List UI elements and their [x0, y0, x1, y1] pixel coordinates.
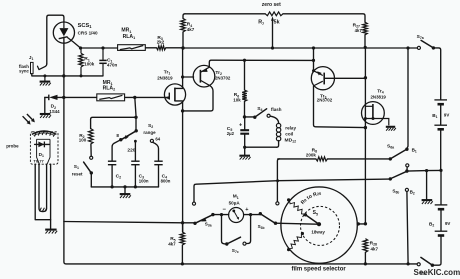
label SCS1: [78, 23, 93, 29]
label 4k7 R5: [168, 242, 176, 247]
label S3b: [258, 224, 265, 230]
label S6b: [392, 189, 399, 195]
capacitor C2: [108, 161, 116, 187]
ground below J1 rail: [40, 76, 51, 86]
label S2: [148, 123, 153, 129]
label C4: [162, 173, 168, 179]
svg-text:SeeKIC.com: SeeKIC.com: [414, 268, 460, 277]
svg-text:zero set: zero set: [262, 2, 281, 8]
junction dot D2 node: [62, 96, 65, 99]
switch S1 reset: [84, 156, 93, 187]
svg-text:50µA: 50µA: [229, 201, 241, 206]
wire wiper feed: [276, 223, 318, 224]
ground cap rail: [120, 187, 131, 198]
label 2k2: [157, 40, 165, 45]
svg-text:100k: 100k: [84, 62, 94, 67]
terminal circle B2: [405, 188, 408, 191]
potentiometer R7: [265, 12, 283, 48]
capacitor C5: [240, 117, 249, 147]
relay contact MR1 RLA1: [118, 45, 146, 51]
label MD12: [285, 138, 297, 144]
wire top rail: [185, 14, 365, 22]
label 100: [79, 138, 87, 143]
transistor Tr4 2N3819: [362, 102, 389, 126]
switch S3b: [259, 212, 278, 225]
label R7: [258, 20, 264, 26]
svg-text:1S44: 1S44: [49, 109, 60, 114]
label C1: [107, 58, 113, 64]
resistor R28: [363, 239, 368, 264]
label S3a: [205, 222, 212, 228]
svg-text:100n: 100n: [139, 178, 149, 183]
wire battery mid rail: [407, 169, 441, 172]
wire selector to R28: [357, 222, 368, 225]
junction dot Tr4 gate: [364, 126, 367, 129]
label 200k: [306, 153, 316, 158]
transistor Tr2 2N3702: [193, 65, 215, 87]
capacitor C1: [99, 48, 106, 76]
label S6a: [387, 144, 394, 150]
label minus: [223, 207, 227, 213]
label reset: [72, 171, 83, 176]
junction dot C5 bottom: [243, 146, 246, 149]
svg-text:2N3819: 2N3819: [371, 94, 387, 99]
label film speed selector: [292, 267, 347, 273]
svg-text:−: −: [223, 207, 227, 213]
label 10k: [233, 97, 241, 102]
label 100k: [84, 62, 94, 67]
label R3: [157, 35, 162, 41]
label 4k7 R28: [371, 247, 379, 252]
switch S4: [245, 109, 271, 119]
label 18way: [311, 229, 325, 234]
ground below D2: [40, 97, 51, 118]
diode D2: [45, 95, 97, 101]
label C2: [116, 173, 122, 179]
svg-text:4k7: 4k7: [187, 27, 195, 32]
label D1: [39, 152, 44, 158]
watermark: [414, 268, 460, 277]
svg-text:4k7: 4k7: [371, 247, 379, 252]
svg-text:4k7: 4k7: [355, 28, 363, 33]
label plus M1: [245, 207, 249, 213]
label J1: [29, 55, 34, 61]
switch S7b: [417, 257, 434, 267]
svg-text:200k: 200k: [306, 153, 316, 158]
label coil: [285, 132, 293, 137]
label MR1: [121, 28, 131, 34]
svg-text:CRS 1/40: CRS 1/40: [78, 30, 98, 35]
svg-text:2µ2: 2µ2: [227, 131, 235, 136]
wire R2 top link: [91, 117, 136, 128]
battery B1: [434, 100, 447, 170]
light arrows: [23, 114, 35, 125]
svg-text:9V: 9V: [445, 221, 450, 226]
label B1 at S6a: [412, 148, 417, 154]
wire C5 bottom node: [245, 146, 277, 148]
label B2 9V: [429, 221, 450, 228]
label 2N3819 Tr4: [371, 94, 387, 99]
resistor R27: [363, 22, 368, 47]
label S7c: [232, 248, 239, 254]
junction dots emitter rail: [181, 46, 409, 50]
svg-text:10k: 10k: [233, 97, 241, 102]
label Tr3: [320, 93, 327, 99]
meter M1: [229, 208, 244, 223]
capacitor C4: [154, 161, 162, 187]
resistor R1: [79, 48, 83, 76]
label TIL77: [33, 158, 44, 163]
label B1 9V: [432, 112, 449, 119]
label S7b: [420, 270, 427, 276]
ground battery mid: [422, 171, 433, 204]
label 1S44: [49, 109, 60, 114]
junction dots node y48: [79, 46, 105, 49]
svg-text:SCS1: SCS1: [78, 23, 93, 29]
relay contact MR1 RLA2: [97, 94, 125, 101]
junction dots mid rail: [425, 169, 443, 172]
photodiode D1: [35, 139, 50, 164]
resistor R26: [287, 232, 304, 251]
label 64: [155, 136, 160, 141]
svg-text:4k7: 4k7: [168, 242, 176, 247]
svg-text:9V: 9V: [444, 112, 449, 117]
wire S7a to B1: [433, 48, 440, 100]
contact S2 64: [150, 139, 158, 160]
label 4k7 R27: [355, 28, 363, 33]
svg-text:100: 100: [79, 138, 87, 143]
selector outer circle S5: [281, 187, 357, 263]
label 4k7 R4: [187, 27, 195, 32]
svg-text:18way: 18way: [311, 229, 325, 234]
switch S2 range: [119, 117, 138, 141]
label RLA1: [123, 34, 136, 40]
label flash S4: [271, 107, 282, 112]
switch S7c bypass: [222, 215, 251, 246]
wire S3a upper to S6b: [194, 179, 389, 202]
capacitor C3: [131, 161, 139, 187]
junction dot emitter wire join: [312, 59, 315, 62]
junction dots on J1 rail: [43, 74, 82, 77]
label R6: [234, 92, 239, 98]
wire emitter rail y48: [183, 47, 417, 49]
junction dots S7c taps: [220, 213, 252, 216]
label R1: [84, 56, 90, 62]
svg-text:flash: flash: [271, 107, 282, 112]
wire J1 to SCS1 anode: [47, 15, 64, 64]
svg-text:TIL77: TIL77: [33, 158, 44, 163]
label C5: [227, 126, 233, 132]
label 100n: [139, 178, 149, 183]
junction dot Tr2 base: [181, 75, 184, 78]
wire S7a to B1 contact: [407, 48, 408, 148]
svg-text:range: range: [143, 130, 156, 135]
resistor R2: [89, 129, 94, 157]
label 2N3819 Tr1: [157, 75, 173, 80]
label zero set: [262, 2, 281, 8]
selector inner dashed circle: [301, 206, 340, 245]
svg-text:470n: 470n: [107, 63, 117, 68]
wire Tr2 emitter to rail y60: [209, 60, 313, 67]
junction dot S3a column: [181, 221, 184, 224]
junction dot RLA2 right: [133, 96, 136, 99]
label 2N3702 Tr2: [215, 76, 231, 81]
label 220: [127, 148, 135, 154]
resistor R6: [242, 60, 247, 117]
resistor R5: [180, 223, 185, 264]
label probe: [6, 144, 19, 149]
junction dot S4 node: [243, 115, 246, 118]
wire meter row: [213, 214, 259, 216]
label 800n: [161, 178, 171, 183]
junction dot Tr1 source node: [181, 109, 184, 112]
svg-text:2N3702: 2N3702: [317, 98, 333, 103]
probe housing: [30, 131, 58, 164]
wire Tr3 emitter column: [312, 48, 315, 72]
ground below C5: [239, 147, 250, 159]
svg-text:8: 8: [116, 133, 119, 138]
label Tr1: [164, 70, 171, 76]
label R8: [312, 148, 317, 154]
wire capacitor ground rail: [91, 186, 158, 188]
wire probe to S3a: [64, 222, 183, 223]
junction dot R2 link: [134, 116, 137, 119]
wire Tr1 source down long column: [175, 101, 183, 232]
transistor Tr1 2N3819: [164, 84, 185, 105]
switch S3a: [183, 213, 215, 225]
svg-text:5k: 5k: [274, 20, 280, 26]
terminal circle S6a lower: [406, 164, 409, 170]
svg-text:2N3819: 2N3819: [157, 75, 173, 80]
relay coil MD12: [270, 116, 281, 147]
svg-text:2N3702: 2N3702: [215, 76, 231, 81]
transistor Tr3 2N3702: [311, 67, 334, 90]
switch S6b: [389, 169, 409, 180]
svg-text:sync: sync: [19, 69, 29, 74]
wire RLA2 node down: [135, 97, 136, 115]
label S5: [313, 210, 318, 216]
ground probe: [45, 230, 57, 234]
label R5: [170, 236, 175, 242]
label 2N3702 Tr3: [317, 98, 333, 103]
label MR1 RLA2: [103, 80, 116, 92]
label plus C5: [239, 122, 243, 128]
label R4: [187, 22, 192, 28]
wire Tr3 base to R27 column: [324, 77, 365, 79]
label relay: [285, 126, 296, 131]
battery B2: [434, 170, 447, 265]
junction dot Tr3 base node: [364, 76, 367, 79]
label R27: [353, 23, 360, 29]
resistor R8: [278, 157, 389, 161]
label flash sync: [19, 64, 30, 74]
terminal circle above S3b: [276, 202, 279, 205]
resistor R4: [181, 14, 186, 48]
label 470n: [107, 63, 117, 68]
label R28: [370, 241, 377, 247]
label range: [143, 130, 156, 135]
junction dots cap rail: [111, 185, 137, 188]
label Tr2: [215, 70, 222, 76]
wire main node y48: [81, 47, 184, 49]
label S4: [257, 106, 262, 112]
switch S6a: [389, 148, 409, 161]
svg-text:220: 220: [127, 148, 135, 154]
contact S2 mid: [134, 140, 137, 161]
label M1: [233, 194, 239, 200]
SCS U1 SCS1: [53, 22, 80, 48]
label 50uA: [229, 201, 241, 206]
resistor R3: [157, 46, 166, 50]
junction dot R6 top: [243, 59, 246, 62]
wire Tr1 gate: [125, 96, 170, 98]
label R2: [79, 133, 84, 139]
label C3: [139, 173, 145, 179]
svg-text:relay: relay: [285, 126, 296, 131]
wire Tr2 base: [183, 76, 194, 78]
wire R4 node down / Tr1 drain column: [175, 48, 183, 88]
svg-text:coil: coil: [285, 132, 293, 137]
label S7a: [417, 34, 424, 40]
svg-text:film speed selector: film speed selector: [292, 267, 347, 273]
junction dot x278 cross: [276, 179, 279, 182]
wire R27 column down: [364, 47, 366, 224]
label 2u2: [227, 131, 235, 136]
jack J1: [31, 62, 47, 73]
label CRS 1/40: [78, 30, 98, 35]
label 8: [116, 133, 119, 138]
selector wiper S5: [304, 213, 321, 226]
svg-text:800n: 800n: [161, 178, 171, 183]
wire Tr2 collector down: [183, 85, 213, 111]
svg-text:64: 64: [155, 136, 160, 141]
label S1: [74, 164, 79, 170]
junction dots bottom rail: [181, 262, 410, 265]
label D2: [51, 104, 56, 110]
svg-text:probe: probe: [6, 144, 19, 149]
wire SCS1 cathode long vertical + bottom rail: [64, 37, 417, 264]
resistor R9: [287, 198, 305, 214]
wire S2 to C2: [112, 140, 121, 161]
svg-text:reset: reset: [72, 171, 83, 176]
wire B2 circle to bottom rail: [407, 192, 408, 264]
svg-text:2k2: 2k2: [157, 40, 165, 45]
wire relay column down: [277, 159, 279, 202]
ground Tr4 source: [386, 127, 396, 131]
probe stem: [35, 164, 50, 229]
label B2 at S6b: [410, 190, 415, 196]
terminal circle S3a upper: [192, 202, 195, 205]
wire J1 ground rail: [32, 74, 103, 76]
switch S7a: [417, 40, 435, 49]
wire Tr3 collector to Tr4 gate: [314, 86, 366, 128]
label 5k: [274, 20, 280, 26]
label Tr4: [377, 89, 384, 95]
label R9 to R26: [300, 191, 321, 205]
svg-text:R7: R7: [258, 20, 264, 26]
